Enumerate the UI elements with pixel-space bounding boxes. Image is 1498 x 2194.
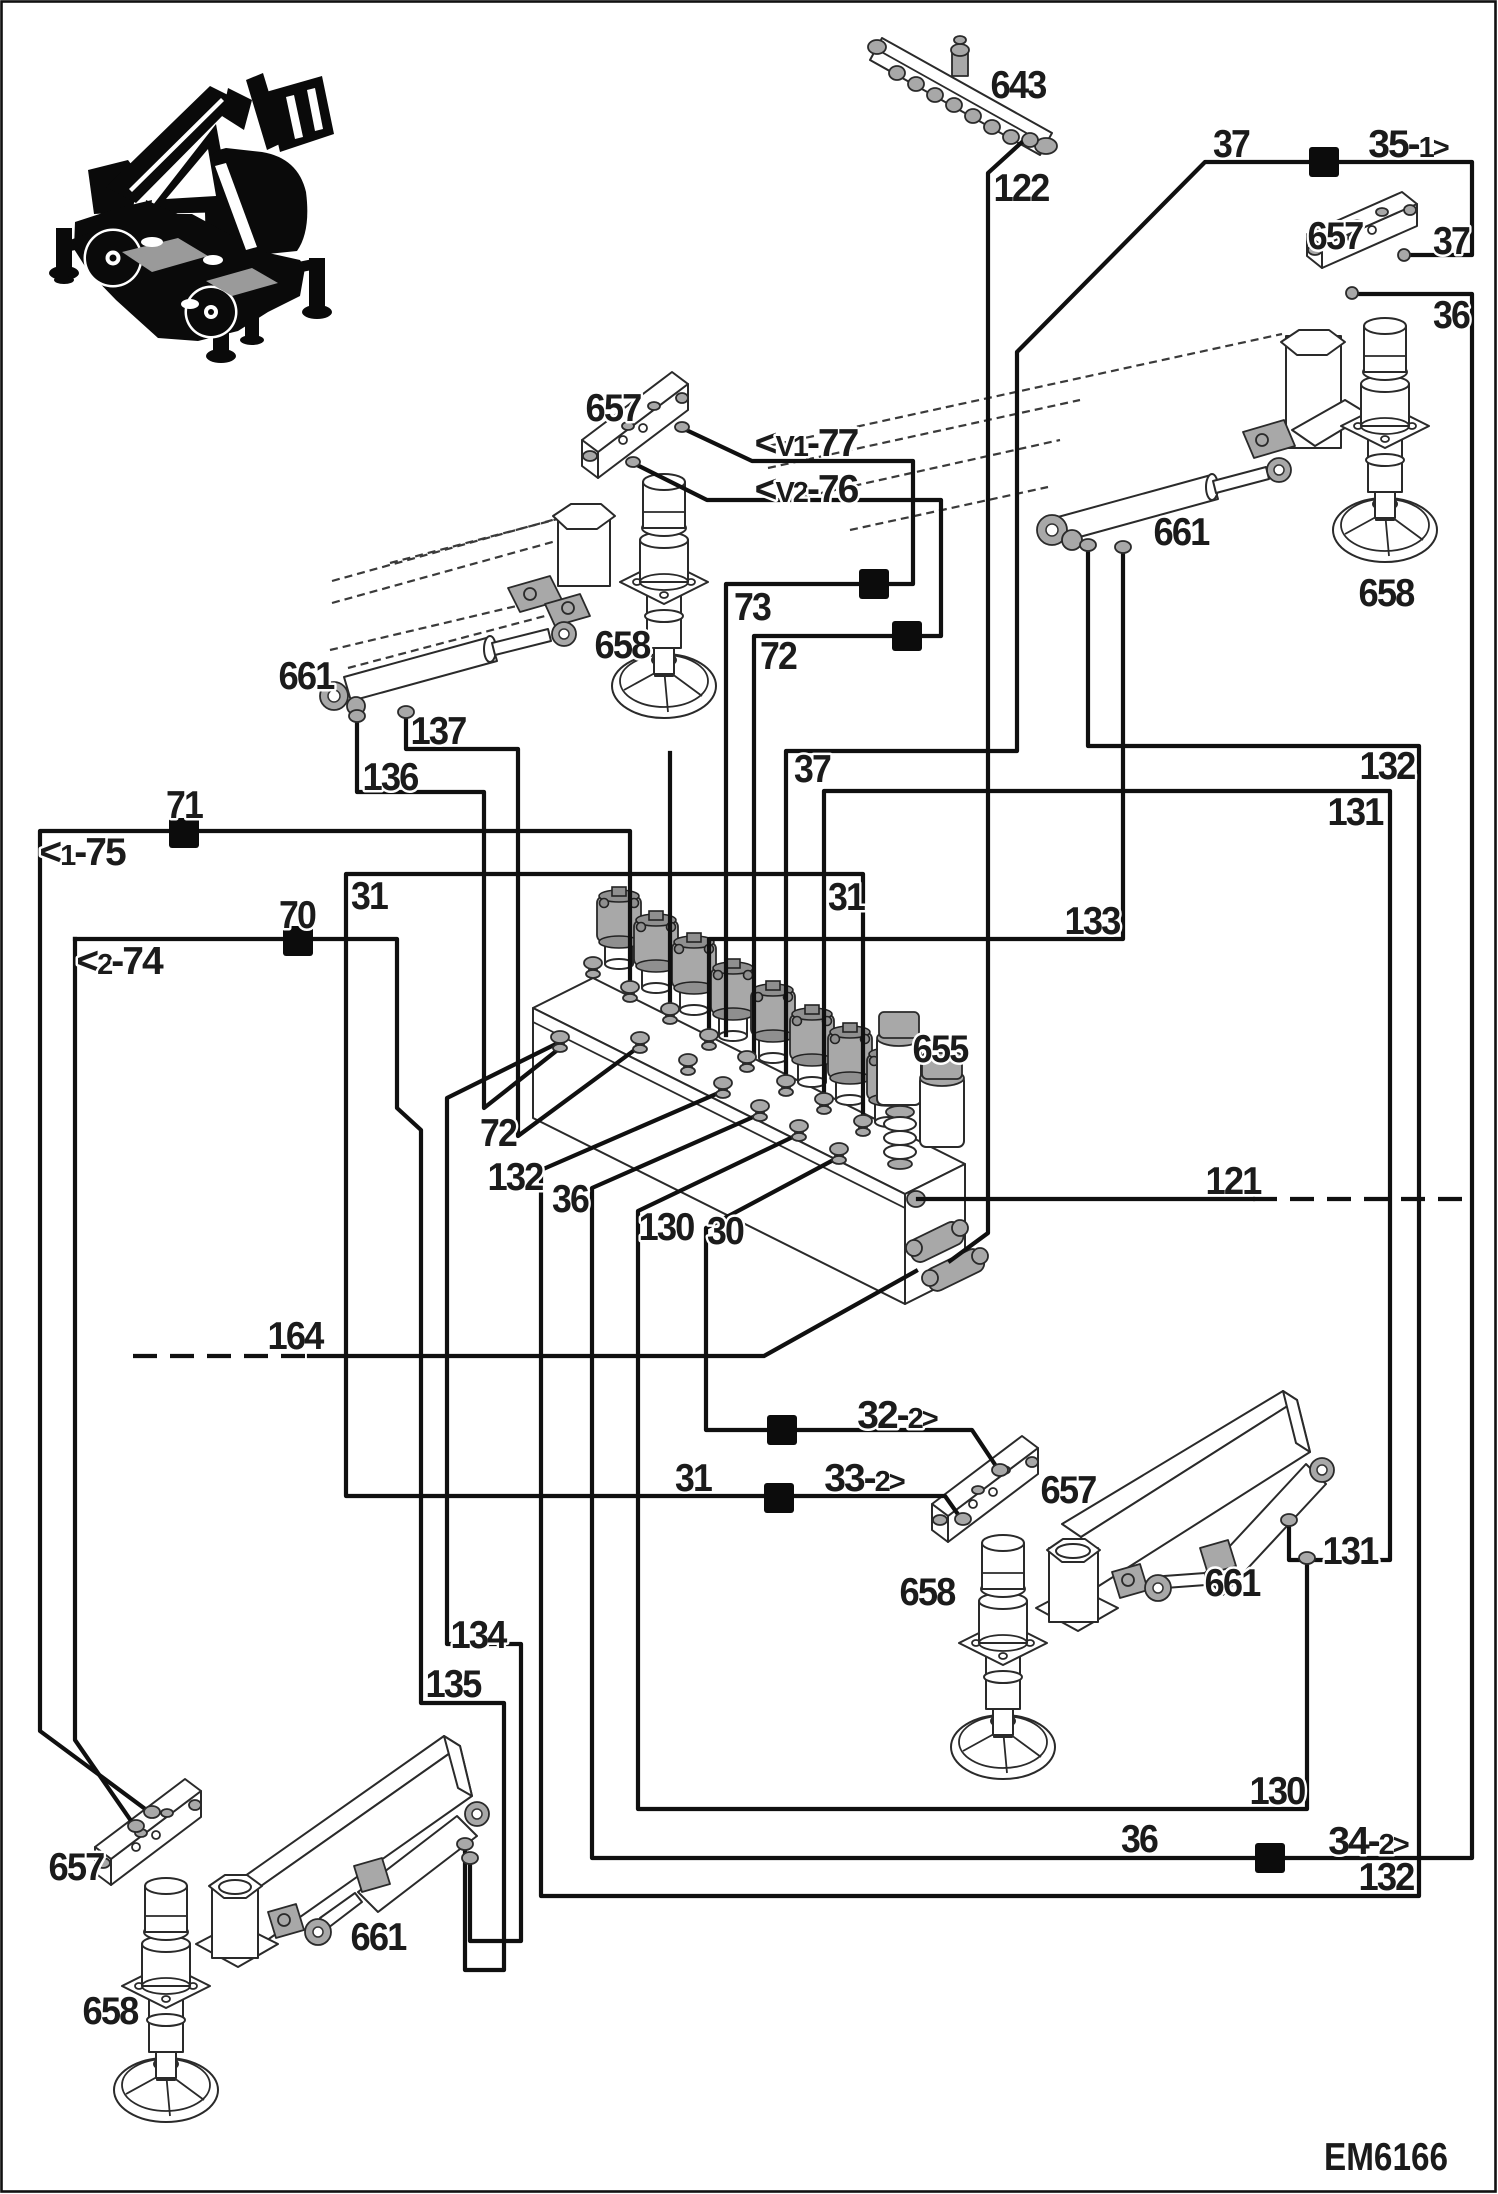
svg-text:657: 657 [1308,215,1363,258]
svg-text:655: 655 [913,1028,969,1071]
svg-text:134: 134 [451,1614,508,1657]
svg-text:135: 135 [426,1663,482,1706]
svg-text:37: 37 [1213,123,1249,166]
svg-text:131: 131 [1328,791,1384,834]
svg-text:<V2-76: <V2-76 [755,468,859,511]
svg-text:73: 73 [734,586,771,629]
svg-text:36: 36 [1121,1818,1158,1861]
svg-text:70: 70 [279,894,316,937]
svg-text:36: 36 [552,1178,589,1221]
svg-text:30: 30 [707,1210,744,1253]
svg-text:<V1-77: <V1-77 [755,422,858,465]
svg-text:164: 164 [268,1315,325,1358]
svg-text:661: 661 [351,1916,407,1959]
svg-text:136: 136 [363,756,419,799]
svg-text:72: 72 [480,1112,517,1155]
svg-text:658: 658 [1359,572,1415,615]
svg-text:130: 130 [639,1206,695,1249]
svg-text:658: 658 [900,1571,956,1614]
svg-text:661: 661 [279,655,335,698]
svg-text:137: 137 [411,710,466,753]
svg-text:657: 657 [1041,1469,1096,1512]
svg-text:121: 121 [1206,1160,1262,1203]
svg-text:658: 658 [595,624,651,667]
svg-text:132: 132 [488,1156,544,1199]
svg-text:658: 658 [83,1990,139,2033]
svg-text:643: 643 [991,64,1047,107]
svg-text:31: 31 [351,875,388,918]
svg-text:133: 133 [1065,900,1121,943]
svg-text:<2-74: <2-74 [76,940,164,983]
svg-text:130: 130 [1250,1770,1306,1813]
svg-text:132: 132 [1360,745,1416,788]
svg-text:661: 661 [1154,511,1210,554]
svg-text:<1-75: <1-75 [39,831,126,874]
svg-text:71: 71 [166,784,203,827]
svg-text:31: 31 [828,876,865,919]
svg-text:122: 122 [994,167,1050,210]
svg-text:72: 72 [760,635,797,678]
svg-text:132: 132 [1359,1856,1415,1899]
svg-text:131: 131 [1323,1530,1379,1573]
svg-text:36: 36 [1433,294,1470,337]
svg-text:657: 657 [49,1846,104,1889]
svg-text:31: 31 [675,1457,712,1500]
svg-text:EM6166: EM6166 [1324,2136,1448,2179]
svg-text:661: 661 [1205,1562,1261,1605]
svg-text:37: 37 [794,748,830,791]
svg-text:37: 37 [1433,220,1469,263]
svg-text:657: 657 [586,387,641,430]
